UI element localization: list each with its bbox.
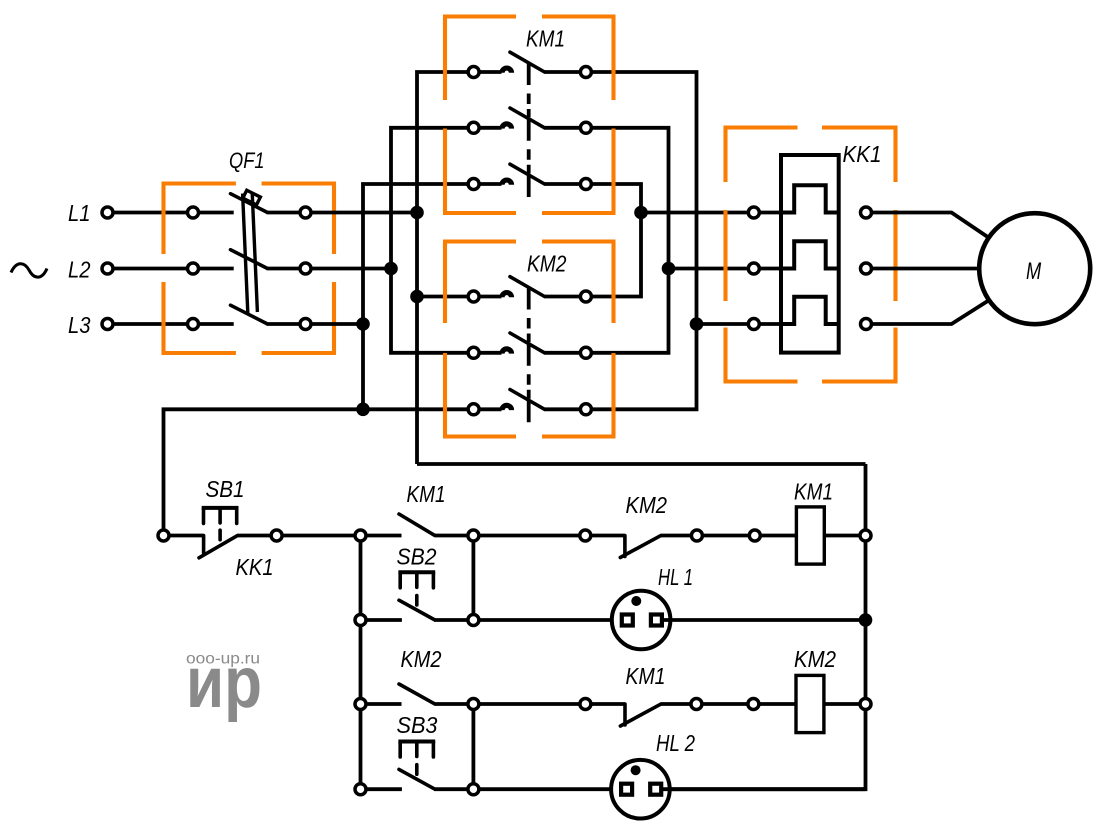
contactor KM2 main pole 1: right terminal (580, 291, 591, 302)
SB2 right wire (434, 618, 468, 622)
contactor KM1 main pole 3: wire to right terminal (545, 182, 581, 186)
wire L1 input to QF1 (113, 211, 188, 215)
start button SB3 (NO) (399, 769, 434, 788)
junction right bus / HL1 (859, 613, 873, 627)
contactor KM1 main pole 2: left terminal (468, 122, 479, 133)
QF1 pole L2: left wire (198, 267, 233, 271)
HL1: left electrode (622, 615, 633, 626)
interlock contact KM2 (NC): blade (normally closed) (620, 536, 660, 558)
contactor KM2 main pole 3: left terminal (468, 404, 479, 415)
SB3 right wire (434, 787, 468, 791)
svg-text:SB2: SB2 (397, 544, 437, 570)
stop button SB1 / thermal contact KK1 (NC) (202, 536, 206, 554)
stop button SB1: actuator bracket (202, 506, 239, 510)
svg-text:KM2: KM2 (794, 646, 836, 672)
dashed accent box around KM2 (443, 242, 616, 437)
wire row1 to KM2 NC (479, 534, 580, 538)
wire KK1 to motor (middle phase) (871, 267, 980, 271)
contactor KM2 main pole 1: wire to right terminal (545, 295, 581, 299)
QF1 latch flag (243, 190, 261, 205)
QF1 pole L1: right wire (267, 211, 301, 215)
contactor KM2 mechanical linkage (dashed) (527, 287, 531, 422)
wire KK1 to motor (bottom phase) (871, 301, 988, 325)
contactor KM1 main pole 2: fixed-contact hook (479, 126, 502, 130)
wire coil KM2 to right bus (824, 702, 860, 706)
contactor KM2 main pole 3: wire to right terminal (545, 407, 581, 411)
QF1 pole L1: right terminal (300, 207, 311, 218)
KM2 aux NO contact: blade (399, 684, 434, 704)
KK1 right terminal 2 (861, 263, 872, 274)
KM2 aux NO contact: right wire (434, 702, 468, 706)
KK1 left terminal 2 (748, 263, 759, 274)
interlock contact KM2 (NC): fixed contact tick (623, 536, 627, 557)
contactor KM1 main pole 1: right terminal (580, 67, 591, 78)
wire: KM2 pole3 row from left corner through L3 drop (164, 409, 469, 535)
wire HL1 to right bus (664, 618, 866, 622)
dashed accent box around KK1 (724, 128, 898, 382)
KK1 right terminal 1 (861, 207, 872, 218)
KM1 aux NO contact: right wire (434, 534, 468, 538)
HL2: left electrode (621, 784, 632, 795)
svg-text:KK1: KK1 (843, 141, 882, 167)
contactor KM2 main pole 3: right terminal (580, 404, 591, 415)
svg-text:QF1: QF1 (229, 148, 265, 173)
svg-text:KM2: KM2 (527, 251, 567, 277)
wire to hold node column (282, 534, 355, 538)
HL1: right electrode (651, 615, 662, 626)
junction output V (662, 262, 676, 276)
junction L2/KM drops (384, 262, 398, 276)
start button SB2: actuator link (dashed) (415, 596, 419, 606)
interlock contact KM1 (NC): blade (normally closed) (620, 704, 660, 726)
KK1 left terminal 1 (748, 207, 759, 218)
AC source tilde symbol (11, 264, 47, 277)
QF1 pole L2: right wire (267, 267, 301, 271)
wire to coil KM2 (759, 702, 796, 706)
svg-text:KM2: KM2 (626, 492, 668, 518)
svg-text:SB1: SB1 (206, 476, 245, 502)
QF1 pole L3: blade (231, 305, 267, 323)
dashed accent box around QF1 (162, 184, 337, 354)
start button SB2 (NO) (399, 600, 434, 619)
junction L3/KM drops (356, 317, 370, 331)
KK1 left terminal 3 (748, 319, 759, 330)
KK1 wire left 3 (759, 322, 781, 326)
QF1 pole L2: blade (231, 250, 267, 268)
junction L1/KM drops (410, 206, 424, 220)
svg-text:L1: L1 (68, 200, 91, 226)
KK1 heater element phase 2 (781, 241, 839, 268)
wire HL2 to right bus corner (663, 787, 866, 791)
circuit breaker QF1 pole L1: left terminal (188, 207, 199, 218)
input terminal L2 (102, 263, 113, 274)
contactor coil KM2 (796, 675, 824, 732)
wire KK1 to motor (top phase) (871, 213, 988, 238)
KK1 right terminal 3 (861, 319, 872, 330)
wire: output line V to KK1 (669, 267, 749, 271)
circuit breaker QF1 pole L3: left terminal (188, 319, 199, 330)
SB1 right wire (237, 534, 271, 538)
contactor KM2 main pole 1: left terminal (468, 291, 479, 302)
KM1 aux NO contact: left wire (366, 534, 402, 538)
contactor KM1 mechanical linkage (dashed) (527, 63, 531, 198)
svg-text:ир: ир (186, 643, 262, 723)
contactor KM1 main pole 3: right terminal (580, 179, 591, 190)
wire row3 (479, 702, 580, 706)
QF1 pole L3: right wire (267, 322, 301, 326)
svg-text:KM1: KM1 (526, 26, 565, 52)
wire node A to SB3 (366, 787, 402, 791)
wire: output line W to KK1 (697, 322, 749, 326)
wire: KM2 pole1 left (417, 295, 468, 299)
junction KM2 pole1 feed (410, 290, 424, 304)
HL2: gas dot (631, 765, 641, 775)
stop button SB1: actuator link (dashed) (218, 530, 222, 540)
contactor KM1 main pole 1: wire to right terminal (545, 70, 581, 74)
svg-text:KM1: KM1 (407, 481, 446, 507)
wire: left column KM1 pole2 to L2 node to KM2 pole2 (391, 128, 468, 353)
svg-text:SB3: SB3 (397, 712, 438, 738)
contactor KM2 main pole 2: moving blade (510, 333, 545, 353)
contactor KM1 main pole 3: moving blade (510, 164, 545, 184)
wire: KM1 pole1 right to right column C down to KM2 pole3 right (591, 72, 696, 409)
wire: control feed top bus (to right side) (417, 462, 866, 466)
wire: output line U to KK1 (641, 211, 748, 215)
wire to coil KM1 (760, 534, 796, 538)
interlock contact KM2 (NC): left wire (591, 534, 625, 538)
wire node A to SB2 (366, 618, 402, 622)
wire L3 from QF1 to distribution node (311, 322, 363, 326)
KK1 wire left 1 (759, 211, 781, 215)
svg-text:M: M (1026, 258, 1041, 285)
wire: KM1 pole2 right to column B down to KM2 pole2 right (591, 128, 668, 353)
wire L2 input to QF1 (113, 267, 188, 271)
column B lower segment (471, 709, 475, 783)
KK1 heater element phase 3 (781, 297, 839, 324)
contactor KM2 main pole 3: fixed-contact hook (479, 407, 502, 411)
contactor KM1 main pole 2: moving blade (510, 108, 545, 128)
contactor coil KM1 (796, 507, 824, 564)
QF1 pole L1: blade (231, 194, 267, 212)
junction output U (634, 206, 648, 220)
contactor KM1 main pole 1: fixed-contact hook (479, 70, 502, 74)
thermal relay KK1 body (781, 155, 839, 353)
svg-text:HL 1: HL 1 (658, 564, 693, 590)
contactor KM1 main pole 3: left terminal (468, 179, 479, 190)
svg-text:KM1: KM1 (626, 663, 666, 689)
svg-text:KM2: KM2 (401, 646, 442, 672)
start button SB3: actuator bracket (398, 740, 435, 744)
dashed accent box around KM1 (443, 17, 616, 214)
circuit breaker QF1 pole L2: left terminal (188, 263, 199, 274)
wire: left column from KM1 pole1 down through L1 node, KM2 pole1, to control bus corner (417, 72, 468, 464)
svg-text:L2: L2 (68, 256, 91, 282)
wire SB3 to lamp HL2 (479, 787, 620, 791)
indicator lamp HL2: bulb circle (611, 760, 670, 819)
KK1 heater element phase 1 (781, 185, 839, 212)
contactor KM1 main pole 1: moving blade (510, 52, 545, 72)
interlock contact KM1 (NC): left wire (591, 702, 625, 706)
contactor KM2 main pole 2: fixed-contact hook (479, 351, 502, 355)
junction L3 feed to control (356, 403, 370, 417)
terminal (271, 530, 282, 541)
wire L3 input to QF1 (113, 322, 188, 326)
column B upper segment (471, 541, 475, 615)
QF1 pole L3: right terminal (300, 319, 311, 330)
node A terminals (355, 530, 366, 541)
motor M (979, 213, 1090, 324)
svg-text:HL 2: HL 2 (656, 730, 695, 756)
terminal at left control column (158, 530, 169, 541)
contactor KM1 main pole 2: wire to right terminal (545, 126, 581, 130)
svg-text:L3: L3 (68, 312, 91, 338)
wire coil to right bus (824, 534, 860, 538)
QF1 pole L2: right terminal (300, 263, 311, 274)
wire (702, 702, 748, 706)
contactor KM2 main pole 1: fixed-contact hook (479, 295, 502, 299)
interlock contact KM2 (NC): right wire (660, 534, 691, 538)
HL2: right electrode (650, 784, 661, 795)
contactor KM2 main pole 2: wire to right terminal (545, 351, 581, 355)
wire: KM1 pole3 right to column A down to KM2 pole1 right (591, 184, 641, 297)
input terminal L1 (102, 207, 113, 218)
KK1 wire left 2 (759, 267, 781, 271)
wire L2 from QF1 to distribution node (311, 267, 391, 271)
right bus vertical (663, 464, 866, 789)
contactor KM2 main pole 1: moving blade (510, 277, 545, 297)
contactor KM2 main pole 2: left terminal (468, 347, 479, 358)
wire L1 from QF1 to distribution node (311, 211, 417, 215)
interlock contact KM1 (NC): fixed contact tick (623, 704, 627, 725)
QF1 pole L1: left wire (198, 211, 233, 215)
svg-text:KM1: KM1 (794, 479, 833, 505)
wire (702, 534, 749, 538)
contactor KM1 main pole 3: fixed-contact hook (479, 182, 502, 186)
HL1: gas dot (631, 596, 641, 606)
start button SB3: actuator link (dashed) (415, 765, 419, 775)
junction output W (690, 317, 704, 331)
QF1 pole L3: left wire (198, 322, 233, 326)
svg-text:KK1: KK1 (236, 554, 274, 580)
interlock contact KM1 (NC): right wire (660, 702, 691, 706)
contactor KM2 main pole 2: right terminal (580, 347, 591, 358)
indicator lamp HL1: bulb circle (612, 591, 671, 650)
common column A (vertical through all control rows) (359, 536, 363, 790)
contactor KM1 main pole 1: left terminal (468, 67, 479, 78)
input terminal L3 (102, 319, 113, 330)
start button SB2: actuator bracket (398, 570, 435, 574)
KM2 aux NO contact: left wire (366, 702, 402, 706)
wire: left column KM1 pole3 to L3 node down (363, 184, 468, 409)
wire to SB1 (169, 534, 204, 538)
contactor KM1 main pole 2: right terminal (580, 122, 591, 133)
KM1 aux NO contact: blade (399, 514, 434, 535)
wire SB2 to lamp HL1 (479, 618, 621, 622)
QF1 trip bar (double line) (243, 193, 258, 314)
contactor KM2 main pole 3: moving blade (510, 390, 545, 410)
